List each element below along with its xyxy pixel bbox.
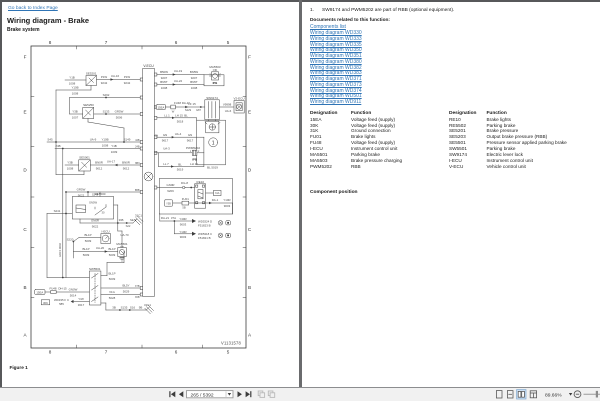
svg-text:E: E <box>248 110 251 115</box>
svg-text:1007: 1007 <box>72 115 79 119</box>
svg-text:F: F <box>24 55 27 60</box>
solenoid lock in RBB <box>205 121 220 133</box>
svg-text:9242: 9242 <box>124 81 131 85</box>
svg-text:BN5T: BN5T <box>160 80 168 84</box>
wire relay right pin down <box>114 205 129 248</box>
svg-text:BN5W: BN5W <box>190 70 199 74</box>
wire V9998 to V2-ECU <box>219 103 234 113</box>
svg-text:S220: S220 <box>67 237 74 241</box>
svg-text:X6B: X6B <box>135 296 140 299</box>
svg-text:LH 15: LH 15 <box>175 114 183 118</box>
svg-text:GR5W: GR5W <box>115 110 124 114</box>
svg-text:5018: 5018 <box>177 119 184 123</box>
svg-text:A: A <box>248 333 252 338</box>
svg-text:BL5Y: BL5Y <box>122 284 129 288</box>
svg-text:IPB: IPB <box>213 81 218 85</box>
svg-text:RE5500: RE5500 <box>95 192 106 196</box>
wire GN bus to loop <box>157 132 204 143</box>
svg-text:DG-8: DG-8 <box>181 181 188 185</box>
svg-text:V2-ECU: V2-ECU <box>233 96 244 100</box>
V-ECU bus U1 <box>143 64 155 296</box>
svg-text:D: D <box>23 168 27 173</box>
svg-text:5009: 5009 <box>109 253 116 257</box>
svg-text:9012: 9012 <box>96 166 103 170</box>
svg-text:1008: 1008 <box>102 143 109 147</box>
wire lamp row 2 <box>174 221 212 240</box>
svg-text:DH-15: DH-15 <box>58 286 67 290</box>
svg-text:UA-22: UA-22 <box>174 79 183 83</box>
svg-text:F: F <box>248 55 251 60</box>
svg-text:UA-70: UA-70 <box>120 233 129 237</box>
vertical wires to switch area <box>47 149 66 278</box>
wire GN0R relay to right <box>80 218 137 228</box>
svg-text:GN0R: GN0R <box>166 183 174 187</box>
svg-text:UA-9: UA-9 <box>90 138 97 142</box>
svg-text:7: 7 <box>105 350 108 355</box>
svg-text:LH 16: LH 16 <box>190 162 198 166</box>
svg-text:UA-16: UA-16 <box>111 74 120 78</box>
svg-text:BL 5019: BL 5019 <box>207 165 218 169</box>
svg-text:5: 5 <box>227 40 230 45</box>
svg-text:RA-21: RA-21 <box>161 216 170 220</box>
svg-text:Y10R: Y10R <box>223 198 230 202</box>
svg-text:LL 1: LL 1 <box>164 114 170 118</box>
relay RE5500 <box>72 192 113 219</box>
fuse FU01 <box>173 197 190 210</box>
svg-text:9003: 9003 <box>180 235 187 239</box>
svg-text:GR1S 9002: GR1S 9002 <box>58 242 62 257</box>
instrument I-ECU <box>101 229 111 243</box>
svg-text:S241: S241 <box>54 209 61 213</box>
svg-text:5019: 5019 <box>177 168 184 172</box>
svg-text:Y3B: Y3B <box>67 161 73 165</box>
svg-text:BL1P: BL1P <box>82 247 89 251</box>
svg-text:LL 7: LL 7 <box>163 162 169 166</box>
wire SW5501 bottom to ground <box>101 303 146 311</box>
svg-text:UA-19: UA-19 <box>174 69 183 73</box>
svg-text:BL: BL <box>178 163 182 167</box>
toolbar icons <box>0 388 600 401</box>
svg-text:S22: S22 <box>126 224 131 228</box>
wire S241 row <box>47 209 72 214</box>
svg-text:24B: 24B <box>55 144 60 148</box>
wire GN0W to SW5501 <box>56 288 89 298</box>
svg-text:5014: 5014 <box>70 293 77 297</box>
supply 15EA at bus <box>154 104 165 109</box>
svg-text:GR5W: GR5W <box>77 188 86 192</box>
svg-text:BN5T: BN5T <box>190 80 198 84</box>
svg-text:1008: 1008 <box>72 91 79 95</box>
svg-text:BN0R: BN0R <box>122 161 130 165</box>
svg-text:V-ECU: V-ECU <box>143 64 154 68</box>
svg-text:RE10: RE10 <box>197 180 205 184</box>
svg-text:9022: 9022 <box>92 224 99 228</box>
svg-text:SE5250: SE5250 <box>83 103 94 107</box>
svg-text:9B: 9B <box>139 306 143 310</box>
svg-text:MA5501: MA5501 <box>116 242 128 246</box>
svg-text:B50W: B50W <box>160 70 168 74</box>
svg-text:9003: 9003 <box>180 222 187 226</box>
svg-text:Y1B: Y1B <box>111 144 117 148</box>
svg-text:Y10R: Y10R <box>179 230 186 234</box>
svg-text:UA-17: UA-17 <box>107 160 116 164</box>
svg-text:F51823 B: F51823 B <box>198 223 211 227</box>
svg-text:B: B <box>23 285 26 290</box>
wire BN0R SE5001 to bus <box>90 160 140 171</box>
svg-text:UA-4: UA-4 <box>175 132 182 136</box>
wire 24B row <box>55 144 140 154</box>
svg-text:SW5501: SW5501 <box>89 267 101 271</box>
svg-text:1008: 1008 <box>161 86 168 90</box>
enclosure RBB <box>197 120 226 165</box>
svg-text:V1G: V1G <box>109 290 116 294</box>
svg-text:P1W: P1W <box>101 75 108 79</box>
wire S292 loop to bus <box>70 93 141 114</box>
svg-text:V1131578: V1131578 <box>221 341 241 346</box>
svg-text:BL1P: BL1P <box>108 247 115 251</box>
svg-text:BL1P: BL1P <box>108 271 115 275</box>
svg-text:SE5001: SE5001 <box>79 156 90 160</box>
svg-text:GN0W: GN0W <box>69 288 78 292</box>
wire BL5Y to bus <box>101 284 140 294</box>
svg-text:5028: 5028 <box>109 296 116 300</box>
svg-text:15EA: 15EA <box>157 105 164 109</box>
wire loop PWM5202 <box>154 137 204 171</box>
svg-text:5B: 5B <box>182 206 185 210</box>
svg-text:S149: S149 <box>124 138 131 142</box>
svg-text:Y3B: Y3B <box>72 110 78 114</box>
svg-text:BL: BL <box>184 114 188 118</box>
svg-text:9003: 9003 <box>224 204 231 208</box>
solenoid MA5501 <box>116 242 128 261</box>
enclosure around MA5503 <box>204 75 224 86</box>
svg-text:S135: S135 <box>121 305 128 309</box>
ground 31C1 upper <box>133 213 143 224</box>
svg-text:9012: 9012 <box>123 166 130 170</box>
svg-text:1: 1 <box>212 141 215 147</box>
wire FU01 to DA-1 <box>189 198 233 214</box>
svg-text:30K: 30K <box>43 301 48 305</box>
svg-text:3617: 3617 <box>78 303 85 307</box>
wire BL1P to I-ECU <box>67 233 101 258</box>
link WD335 arrow <box>54 298 74 306</box>
svg-text:FU48: FU48 <box>49 286 56 290</box>
svg-text:IPB: IPB <box>192 158 197 162</box>
svg-text:31C1: 31C1 <box>135 213 142 217</box>
wire V1G to bus <box>101 290 140 300</box>
sensor SE5201 <box>86 71 97 85</box>
ground 31C1 lower <box>144 303 154 314</box>
wire SE5001 bottom return <box>56 171 84 175</box>
svg-text:A: A <box>23 333 27 338</box>
svg-text:7: 7 <box>105 40 108 45</box>
svg-text:SE5201: SE5201 <box>86 71 97 75</box>
svg-text:UA-3: UA-3 <box>163 147 170 151</box>
svg-text:FU01: FU01 <box>182 197 189 201</box>
svg-text:S16: S16 <box>130 305 136 309</box>
fuse FU48 <box>165 101 190 113</box>
schematic drawing <box>0 0 300 401</box>
svg-text:Y40R: Y40R <box>179 217 186 221</box>
svg-text:Y10B: Y10B <box>101 138 108 142</box>
svg-text:LF 15: LF 15 <box>188 102 196 106</box>
wire P1W SE5201 to bus <box>97 74 141 85</box>
wire Y/W to SW5501 <box>74 297 90 307</box>
svg-text:GN: GN <box>163 133 167 137</box>
svg-text:V9998: V9998 <box>223 103 232 107</box>
frame border <box>31 46 246 348</box>
svg-text:GN: GN <box>188 133 192 137</box>
svg-text:PWM5202: PWM5202 <box>186 146 200 150</box>
svg-text:Y1B: Y1B <box>69 76 75 80</box>
wire SW9174 lower pins <box>209 120 216 122</box>
svg-text:5: 5 <box>227 350 230 355</box>
motor MA5503 <box>209 65 221 85</box>
bus pin boxes <box>140 73 157 296</box>
wire RA-21 lamp row 1 <box>160 214 212 227</box>
svg-text:DA-1: DA-1 <box>212 198 219 202</box>
svg-text:15EA: 15EA <box>36 290 43 294</box>
relay RE10 <box>195 180 206 208</box>
svg-text:S133: S133 <box>103 110 110 114</box>
left page (white) is body background <box>8 6 58 11</box>
switch SW9174 <box>205 96 220 120</box>
wire LF15 to SW9174 <box>175 102 204 112</box>
wire S45 row <box>47 138 140 148</box>
svg-text:9242: 9242 <box>101 81 108 85</box>
wire GN0R bus to RE10 <box>157 181 195 193</box>
svg-text:1008: 1008 <box>191 86 198 90</box>
supply 30K <box>41 300 49 305</box>
svg-text:9617: 9617 <box>162 139 169 143</box>
svg-text:BL1P: BL1P <box>84 233 91 237</box>
svg-text:S229: S229 <box>185 108 192 112</box>
svg-text:UA-6: UA-6 <box>225 109 232 113</box>
connector box left of FU01 <box>164 200 172 206</box>
sensor SE5001 <box>79 156 91 171</box>
svg-text:6: 6 <box>175 350 178 355</box>
svg-text:G87: G87 <box>196 108 202 112</box>
svg-text:Y10B: Y10B <box>71 86 78 90</box>
svg-text:585: 585 <box>59 302 64 306</box>
wire B50W bus to MA5503 <box>157 69 204 80</box>
svg-text:S45: S45 <box>47 138 53 142</box>
svg-text:5006: 5006 <box>116 115 123 119</box>
svg-text:C: C <box>23 227 27 232</box>
wire SE5250 branch diagonal <box>88 119 124 143</box>
svg-text:3B: 3B <box>112 306 116 310</box>
svg-text:8: 8 <box>49 350 52 355</box>
lamp row 2 <box>218 233 230 238</box>
svg-text:SW9174: SW9174 <box>206 96 218 100</box>
bus pin net labels <box>135 134 159 299</box>
wire BN5T bus to MA5503 box <box>157 79 204 90</box>
svg-text:D: D <box>248 168 252 173</box>
wire Y3B to SE5250 <box>70 110 83 120</box>
svg-text:6: 6 <box>175 40 178 45</box>
svg-text:P1W: P1W <box>124 75 131 79</box>
wire GR5W SE5250 to bus <box>94 110 141 120</box>
supply 15EA lower left <box>35 290 45 295</box>
svg-text:5009: 5009 <box>109 277 116 281</box>
svg-text:Y5B: Y5B <box>166 202 171 205</box>
valve PWM5202 <box>186 146 200 162</box>
wire LL1 LH15 <box>157 114 197 124</box>
wire Y3B to SE5001 <box>65 161 79 171</box>
wire BL1P to MA5501 <box>73 246 117 257</box>
lamp row 1 <box>218 221 230 226</box>
switch SW5501 <box>89 267 101 305</box>
svg-text:Y/W: Y/W <box>78 297 84 301</box>
sensor SE5250 <box>83 103 94 118</box>
svg-text:GN0R: GN0R <box>91 219 99 223</box>
svg-text:UA-20: UA-20 <box>96 246 105 250</box>
wire left vertical <box>55 90 57 175</box>
svg-text:39B: 39B <box>119 218 124 222</box>
grid row labels <box>23 55 252 338</box>
svg-text:31A: 31A <box>215 192 220 195</box>
wire Y10B below SE5201 <box>56 86 91 96</box>
svg-text:8: 8 <box>49 40 52 45</box>
wire Y1B to SE5201 <box>65 76 86 86</box>
note circle 1 <box>209 138 218 147</box>
svg-text:BN0R: BN0R <box>95 161 103 165</box>
svg-text:5009: 5009 <box>83 253 90 257</box>
svg-text:89.66%: 89.66% <box>545 392 562 398</box>
enclosure RE10 block <box>159 179 232 215</box>
svg-text:S292: S292 <box>103 93 110 97</box>
svg-text:C: C <box>248 227 252 232</box>
svg-text:37A: 37A <box>171 216 176 220</box>
grid column labels <box>49 40 230 355</box>
wire GR5W row D <box>65 188 140 198</box>
svg-text:5009: 5009 <box>85 239 92 243</box>
wire into SW5501 <box>47 277 89 279</box>
svg-text:1009: 1009 <box>111 150 118 154</box>
svg-text:E: E <box>23 110 26 115</box>
ecu V2-ECU <box>233 96 244 113</box>
svg-text:F51821 B: F51821 B <box>198 236 211 240</box>
connector box right of RE10 <box>206 190 221 195</box>
wire SW5501 top out <box>101 252 124 282</box>
svg-text:1008: 1008 <box>67 166 74 170</box>
svg-text:I-ECU: I-ECU <box>102 229 110 233</box>
svg-text:GN5W: GN5W <box>89 201 98 205</box>
svg-text:9617: 9617 <box>187 139 194 143</box>
svg-text:5029: 5029 <box>123 289 130 293</box>
svg-text:31C1: 31C1 <box>144 303 151 307</box>
fuse FU48 lower left <box>45 286 67 293</box>
svg-text:B: B <box>248 285 251 290</box>
svg-text:9209: 9209 <box>167 189 174 193</box>
svg-text:30: 30 <box>102 211 105 215</box>
